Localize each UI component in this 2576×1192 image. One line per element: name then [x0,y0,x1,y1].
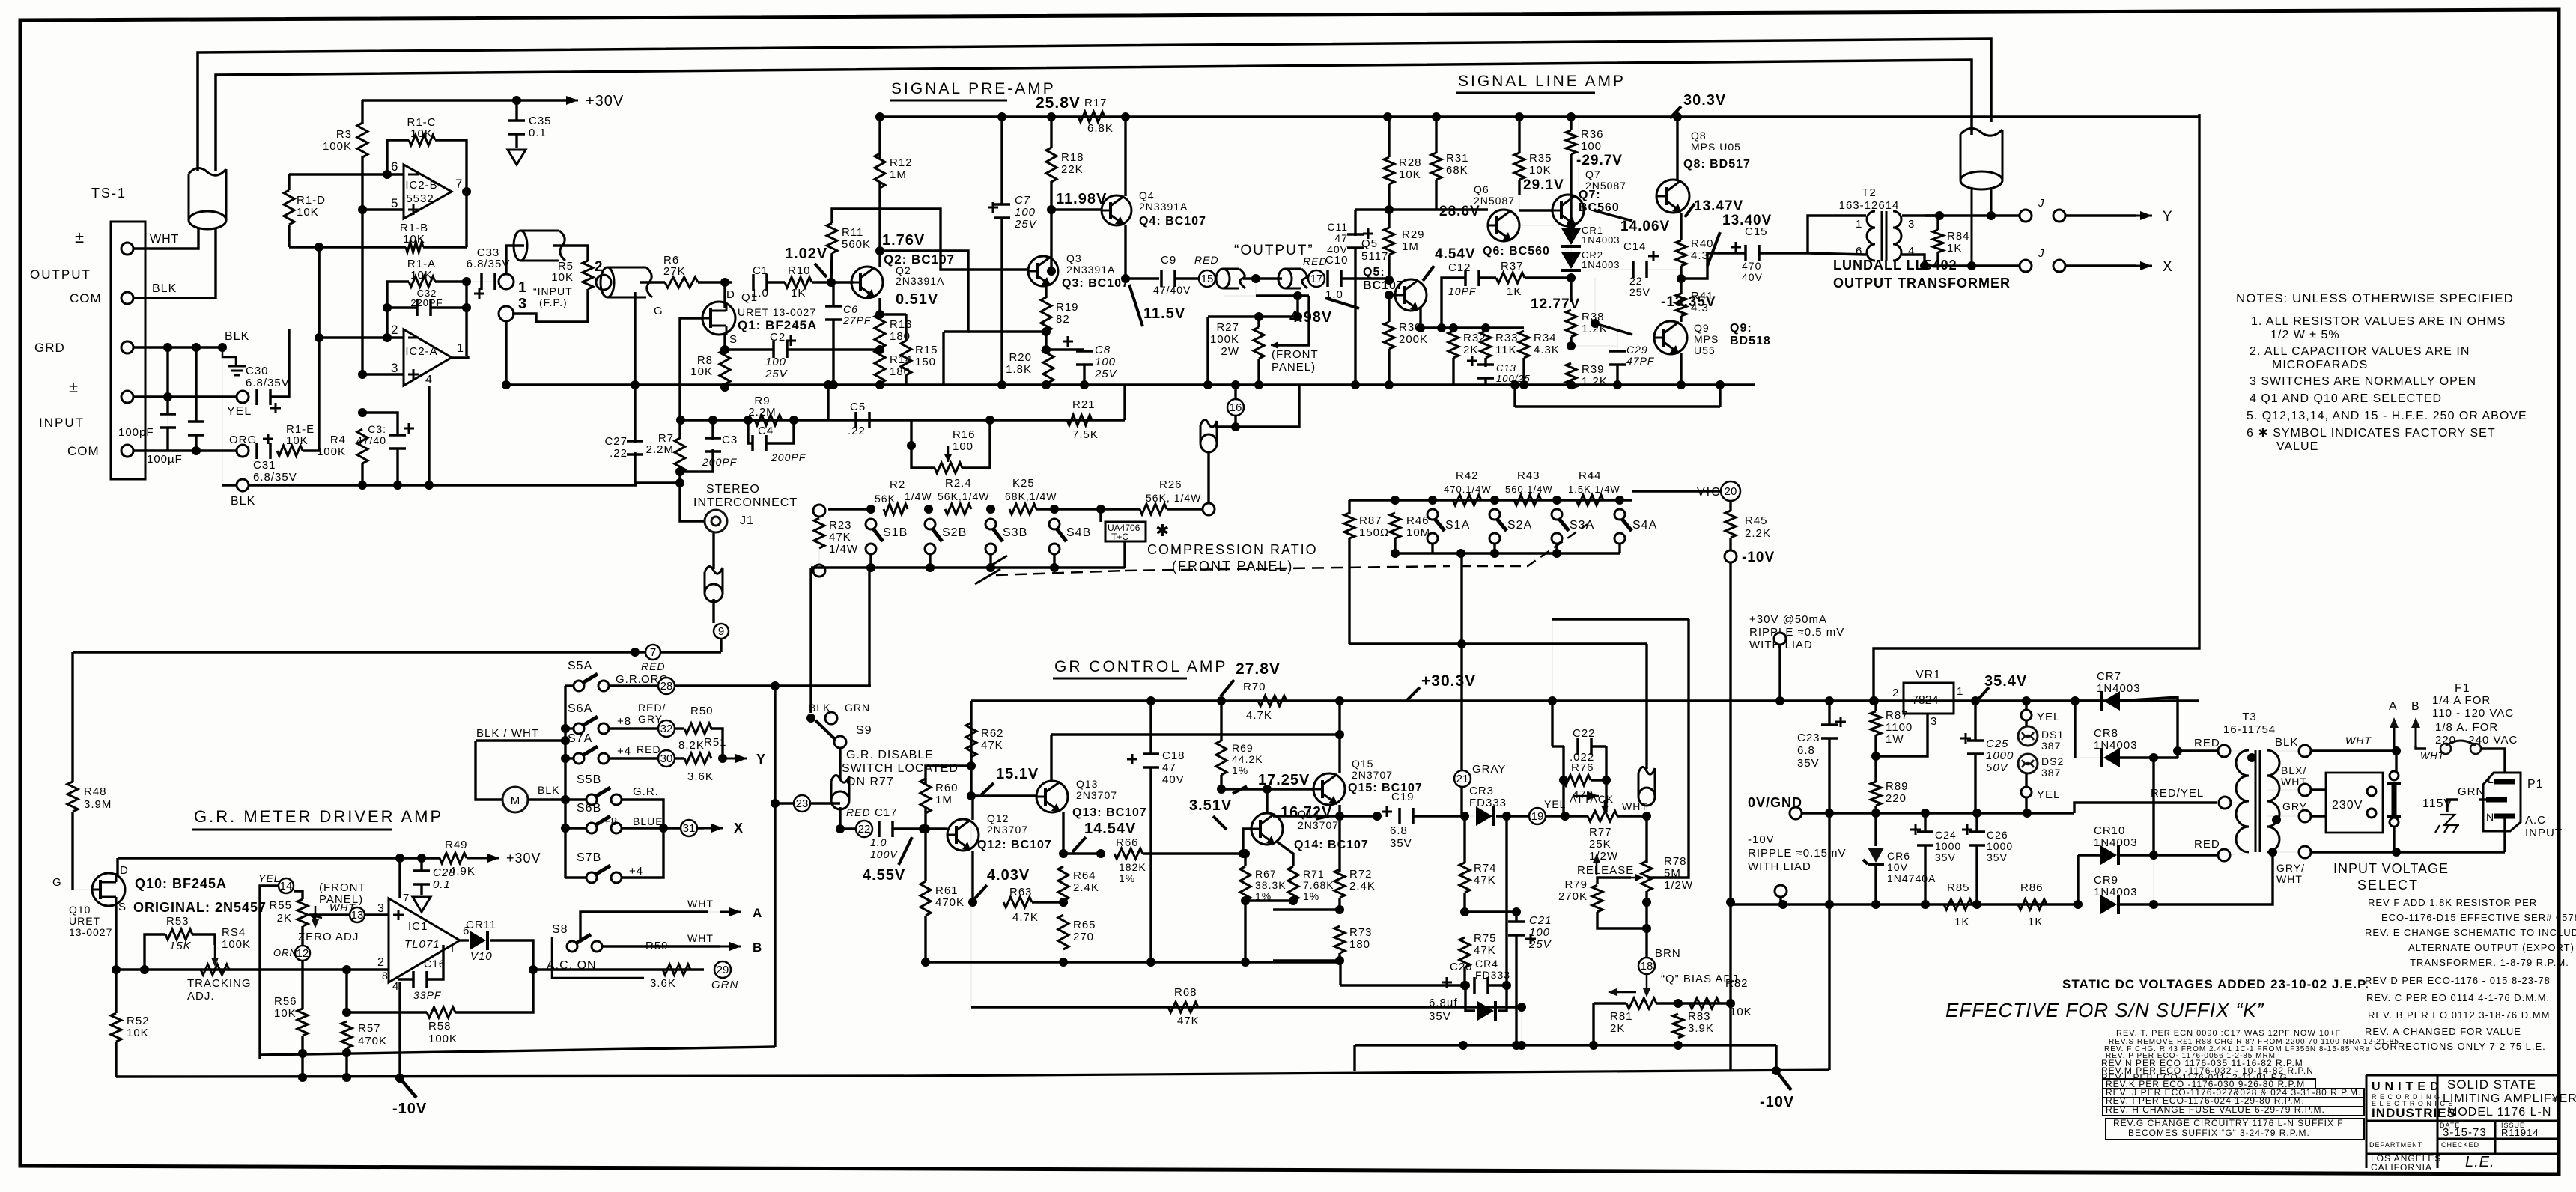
wire R8 bottom [723,384,726,387]
wire [1617,323,1618,350]
wire Q9 base [1595,323,1632,335]
wire release wiper [1647,619,1689,878]
zener CR6 [1868,848,1884,863]
switch S8 [567,941,577,952]
svg-text:22K: 22K [1061,163,1084,176]
svg-text:R76: R76 [1571,761,1594,774]
wire [1036,508,1101,510]
slash 13.40 [1707,232,1720,266]
wire [1388,117,1390,157]
junction R17 rail [1121,112,1130,121]
svg-text:1000: 1000 [1935,840,1961,852]
wire [1775,1045,1777,1071]
wire Q10 source [115,906,117,970]
svg-text:INPUT: INPUT [39,416,85,430]
wire Q13 base [971,794,1037,797]
underline title preamp [890,100,1007,102]
wire fb rail [678,419,1125,421]
junction [1972,809,1981,818]
junction [2071,696,2080,705]
junction [1059,898,1068,907]
svg-text:R34: R34 [1534,332,1557,344]
svg-text:100K: 100K [1210,333,1239,346]
svg-text:1K: 1K [1507,285,1522,298]
connector 28 [658,678,675,694]
svg-text:S8: S8 [552,923,568,936]
wire [2395,751,2397,771]
svg-text:R83: R83 [1688,1010,1711,1023]
svg-text:D: D [726,288,735,301]
wire dashed ratio 2 [1125,566,1450,571]
svg-text:1W: 1W [1886,733,1904,746]
wire [1729,1003,1731,1070]
bracket S8 [552,937,644,978]
junction C3 branch [358,408,367,417]
wire [2231,802,2249,803]
svg-text:VALUE: VALUE [2276,440,2318,453]
junction S4B [1050,505,1059,514]
connector T3 BLKWHT [2299,784,2311,796]
wire [309,913,350,916]
wire R48 top [71,652,73,782]
wire cap 100pF top [166,347,168,415]
diode CR4 [1477,1001,1494,1021]
wire [1234,416,1236,427]
wire Q6 emitter link [1519,225,1571,226]
wire [720,639,722,652]
svg-text:4 Q1 AND Q10 ARE SELECTE: 4 Q1 AND Q10 ARE SELECTED [2250,392,2442,405]
transistor Q6 [1488,210,1519,241]
svg-text:G.R.: G.R. [633,785,659,798]
svg-text:REV. A CHANGED FOR VALUE: REV. A CHANGED FOR VALUE [2365,1026,2521,1037]
junction [1241,896,1250,905]
wire [1488,984,1507,986]
wire R1-E riser [303,247,319,451]
svg-text:G.R.: G.R. [616,673,642,686]
svg-text:CR9: CR9 [2094,874,2118,887]
wire [1167,508,1203,510]
arrow A [2393,725,2396,751]
svg-text:23: 23 [796,797,809,810]
junction R4 blk [358,481,367,490]
svg-text:YEL: YEL [2037,711,2060,723]
svg-text:R11914: R11914 [2501,1127,2539,1138]
svg-text:R45: R45 [1745,514,1768,527]
svg-text:4.7K: 4.7K [1246,709,1272,722]
wire CR9 out [2119,852,2273,904]
transistor Q4 [1102,195,1131,225]
junction [561,724,570,733]
svg-text:RED/: RED/ [638,702,666,714]
wire [1338,816,1340,872]
svg-text:C30: C30 [246,365,269,377]
svg-text:4.3: 4.3 [1691,302,1709,314]
wire [1936,216,1939,230]
wire shield up [1645,644,1647,769]
svg-text:GRY/: GRY/ [2276,862,2305,874]
svg-text:R39: R39 [1582,363,1605,376]
junction [866,563,875,572]
wire BLK output [133,228,216,298]
svg-text:1000: 1000 [1986,749,2014,762]
wire [2153,855,2154,904]
wire R68 line [971,1006,1516,1008]
wire CR8 in [2074,701,2076,758]
slash 3.51V [1213,816,1227,830]
connector 17 [1308,270,1325,287]
junction [1967,261,1976,270]
svg-text:NOTES: UNLESS OTHERWISE SPECIF: NOTES: UNLESS OTHERWISE SPECIFIED [2236,291,2514,305]
wire [1729,502,1731,511]
svg-text:S2A: S2A [1507,519,1532,532]
connector T3 GRY [2299,810,2311,822]
wire shield inner to X [1971,187,1973,266]
wire [1974,753,1976,813]
resistor R57 [341,1021,352,1048]
wire T2 pri bottom [1808,253,1866,255]
wire [1485,328,1486,331]
svg-text:6.8: 6.8 [1797,744,1815,757]
resistor R46 [1390,513,1400,538]
svg-text:3: 3 [1931,715,1937,728]
svg-text:DS2: DS2 [2041,755,2064,767]
ground C28 [413,897,431,912]
capacitor C13 [1477,365,1494,378]
junction [2074,900,2083,909]
slash 4.03V [975,885,987,898]
wire [1681,252,1746,254]
wire 11.5V out [1126,277,1159,279]
wire R1-D bottom [288,225,290,247]
wire R18 bottom [1050,181,1052,210]
connector 21 [1454,770,1471,787]
svg-text:R48: R48 [84,785,107,798]
svg-text:2N3391A: 2N3391A [1139,201,1188,213]
slash 11.5V [1129,285,1143,326]
wire attack top link [1552,618,1689,620]
wire [2178,749,2217,752]
svg-text:6.8: 6.8 [1390,824,1408,837]
svg-text:R50: R50 [690,705,714,717]
svg-text:10K: 10K [403,233,425,246]
wire [1496,815,1529,817]
terminal output COM [121,292,133,304]
svg-text:UNITED: UNITED [2372,1080,2443,1093]
svg-text:4: 4 [425,374,433,386]
svg-text:2K: 2K [1463,344,1478,356]
svg-text:C4: C4 [758,425,774,437]
svg-text:L: L [2488,773,2494,785]
svg-text:C17: C17 [875,806,898,819]
connector 115 b [2390,818,2399,827]
junction [1987,211,1996,220]
junction C2 R14 [875,345,884,354]
wire [1493,544,1495,553]
resistor R12 [875,153,885,188]
wire [1338,898,1340,910]
wire pin4 down [428,386,430,485]
svg-text:28: 28 [660,680,673,693]
wire [528,798,565,800]
terminal -10V tap [1725,550,1737,562]
svg-text:150Ω: 150Ω [1359,526,1389,539]
resistor R24 [945,504,971,514]
wire [697,827,704,829]
wire [1778,645,1781,701]
svg-text:R52: R52 [127,1015,150,1027]
svg-text:200PF: 200PF [702,456,738,468]
svg-text:Q7:: Q7: [1579,189,1601,201]
wire C4 right [766,420,794,443]
resistor R11 [827,223,837,253]
svg-text:C21: C21 [1529,914,1552,927]
svg-text:56K,1/4W: 56K,1/4W [938,490,989,502]
junction BLK S9 [806,714,815,723]
wire UA4706 down [1123,541,1126,568]
diode CR7 [2103,691,2120,711]
capacitor C6 [825,306,842,320]
resistor R41 [1676,294,1686,316]
wire C8 bottom [1083,364,1085,385]
wire Q8 coll [1676,117,1678,180]
svg-text:470: 470 [1573,788,1594,801]
wire to Q5 base [1341,277,1389,279]
wire [1936,252,1939,266]
svg-text:220 - 240 VAC: 220 - 240 VAC [2435,734,2518,746]
svg-text:110 - 120 VAC: 110 - 120 VAC [2432,707,2514,720]
svg-text:C15: C15 [1745,225,1768,238]
capacitor C27 [627,441,643,454]
svg-text:R79: R79 [1564,878,1588,891]
svg-text:WHT: WHT [2345,735,2372,746]
svg-text:GRY: GRY [638,713,663,725]
junction [919,824,928,833]
svg-text:7: 7 [455,177,463,191]
arrow A [720,911,741,913]
junction R7 [676,416,685,425]
wire R59 line [533,968,704,970]
junction R16 [985,416,994,425]
resistor R48 [67,782,78,812]
resistor R15 [901,341,911,375]
svg-text:R72: R72 [1349,868,1373,881]
junction [675,478,684,487]
resistor R34 [1519,331,1529,358]
svg-text:10K: 10K [127,1027,149,1039]
svg-text:CR11: CR11 [466,919,496,931]
wire [1054,509,1055,514]
junction [1935,211,1944,220]
wire riser [318,247,320,338]
svg-text:MPS: MPS [1694,333,1719,345]
svg-text:S1B: S1B [883,526,908,539]
svg-text:R29: R29 [1402,228,1425,241]
wire R62 col [970,701,972,766]
arrow zero adj [315,906,317,922]
svg-text:C35: C35 [529,115,552,127]
svg-text:COMPRESSION RATIO: COMPRESSION RATIO [1147,542,1318,557]
FET Q10 [92,873,125,906]
wire Q5 emitter [1419,308,1421,328]
svg-text:REV. B PER EO 0112 3-18-: REV. B PER EO 0112 3-18-76 D.MM [2368,1009,2550,1021]
junction [1512,907,1521,916]
connector 19 [1529,808,1546,824]
select 230V box [2326,773,2383,833]
svg-text:R20: R20 [1009,351,1032,364]
svg-text:C26: C26 [1987,829,2008,841]
svg-text:R10: R10 [788,264,811,277]
svg-text:G.R. METER DRIVER AMP: G.R. METER DRIVER AMP [194,807,443,826]
svg-text:47PF: 47PF [1626,355,1655,367]
svg-text:GRN: GRN [845,702,870,714]
label plus IC2-A [408,369,419,380]
wire [767,281,785,283]
wire R15 tap [880,313,906,315]
resistor R52 [111,1013,121,1042]
arrow Q bias [1646,974,1648,990]
svg-text:ALTERNATE OUTPUT (EXPORT): ALTERNATE OUTPUT (EXPORT) [2408,942,2575,953]
junction 28.6V [1385,205,1394,214]
svg-text:S3A: S3A [1570,519,1594,532]
junction S3B [986,505,995,514]
arrow attack dir [1573,795,1599,797]
wire to YEL node [1562,780,1564,816]
slash 14.54V [1072,837,1086,852]
svg-text:10K: 10K [551,271,574,284]
slash 35.4V [1977,687,1989,701]
svg-text:WITH LIAD: WITH LIAD [1748,860,1811,873]
capacitor C9 [1161,270,1175,287]
svg-text:+8: +8 [617,715,631,728]
wire [1680,279,1682,294]
junction pin6 R1-C [383,170,392,179]
svg-text:RED/YEL: RED/YEL [2151,787,2204,800]
wire [565,757,574,759]
svg-text:270: 270 [1073,931,1094,943]
connector 29 [714,961,731,978]
wire IC2-A output [452,356,468,358]
junction UA4706 [1096,505,1105,514]
svg-text:560.1/4W: 560.1/4W [1505,484,1553,495]
wire dashed ratio [996,571,1125,575]
svg-text:R11: R11 [842,226,863,239]
junction IC2-B out [462,187,471,196]
junction [1716,380,1725,389]
label plus IC2-B [408,204,419,215]
wire [1591,779,1606,781]
capacitor C21 [1508,922,1525,935]
junction [1335,696,1344,705]
wire S8 A [580,912,708,941]
wire pin4 down [398,982,401,1078]
wire R52 bottom [115,1042,117,1077]
svg-text:BD518: BD518 [1730,335,1771,347]
junction C8 rail [1080,380,1089,389]
svg-text:2: 2 [391,323,398,337]
wire Q9 emitter [1680,353,1682,385]
junction grd cap1 [163,343,172,352]
resistor R1-C [409,135,435,145]
svg-text:2.2K: 2.2K [1745,527,1771,540]
resistor R29 [1384,228,1394,255]
svg-text:TRACKING: TRACKING [187,977,252,990]
wire box right [1605,746,1607,780]
svg-text:100: 100 [1095,356,1116,368]
wire Q10 gate [73,889,92,890]
resistor R19 [1041,297,1051,332]
wire Q7 base link [1519,195,1552,210]
capacitor C5 [856,412,869,428]
cable shield input pot [514,231,527,261]
svg-text:3.51V: 3.51V [1189,797,1232,814]
svg-text:2N3707: 2N3707 [987,824,1028,836]
wire [1570,385,1572,389]
resistor R70 [1258,696,1287,706]
wire pin 7 [398,858,401,898]
wire [1388,255,1390,280]
capacitor C14 [1633,261,1647,278]
switch S7B [586,872,597,883]
wire attack supply [1551,701,1553,746]
capacitor C15 [1746,245,1759,261]
svg-text:R73: R73 [1349,926,1373,939]
capacitor C20 [1474,977,1488,994]
svg-text:47/40V: 47/40V [1153,284,1191,296]
svg-text:47K: 47K [1474,944,1496,957]
wire CR4 left [1465,985,1475,1011]
svg-text:A: A [753,906,762,920]
resistor R27 pot [1254,327,1264,359]
transistor Q9 [1654,321,1687,354]
svg-text:470K: 470K [935,896,965,909]
svg-text:CHECKED: CHECKED [2441,1141,2479,1149]
switch S1A [1427,509,1438,520]
junction [1335,956,1344,965]
junction [921,824,930,833]
wire cap 100uF bottom [195,434,197,451]
wire 100pF down [166,427,168,451]
wire [675,757,684,759]
wire R7 bottom [678,472,681,483]
resistor R87 (150) [1344,513,1355,538]
svg-text:C8: C8 [1095,344,1111,356]
svg-text:PANEL): PANEL) [319,893,363,906]
wire drop [942,332,944,385]
jack J1 [705,510,727,532]
wire ratio rail L [1349,499,1395,501]
svg-text:RS4: RS4 [222,926,246,939]
capacitor C26 [1969,832,1985,845]
svg-text:6: 6 [1856,245,1862,258]
wire [1256,294,1309,297]
svg-text:MICROFARADS: MICROFARADS [2272,359,2368,371]
junction R12 rail [875,112,884,121]
diode CR1 [1561,228,1581,245]
wire [1924,845,1926,904]
svg-text:R70: R70 [1243,681,1266,693]
junction R53 [140,965,149,974]
wire [970,796,972,962]
wire R27 top [1208,315,1298,317]
resistor R32 [1448,331,1459,358]
resistor R2 [884,504,908,514]
wire [1244,901,1246,962]
svg-text:6.8µf: 6.8µf [1429,997,1458,1009]
wire [1431,544,1433,553]
terminal GRD [121,341,133,353]
junction Q1 drain [720,278,729,287]
svg-text:12.77V: 12.77V [1531,297,1580,312]
